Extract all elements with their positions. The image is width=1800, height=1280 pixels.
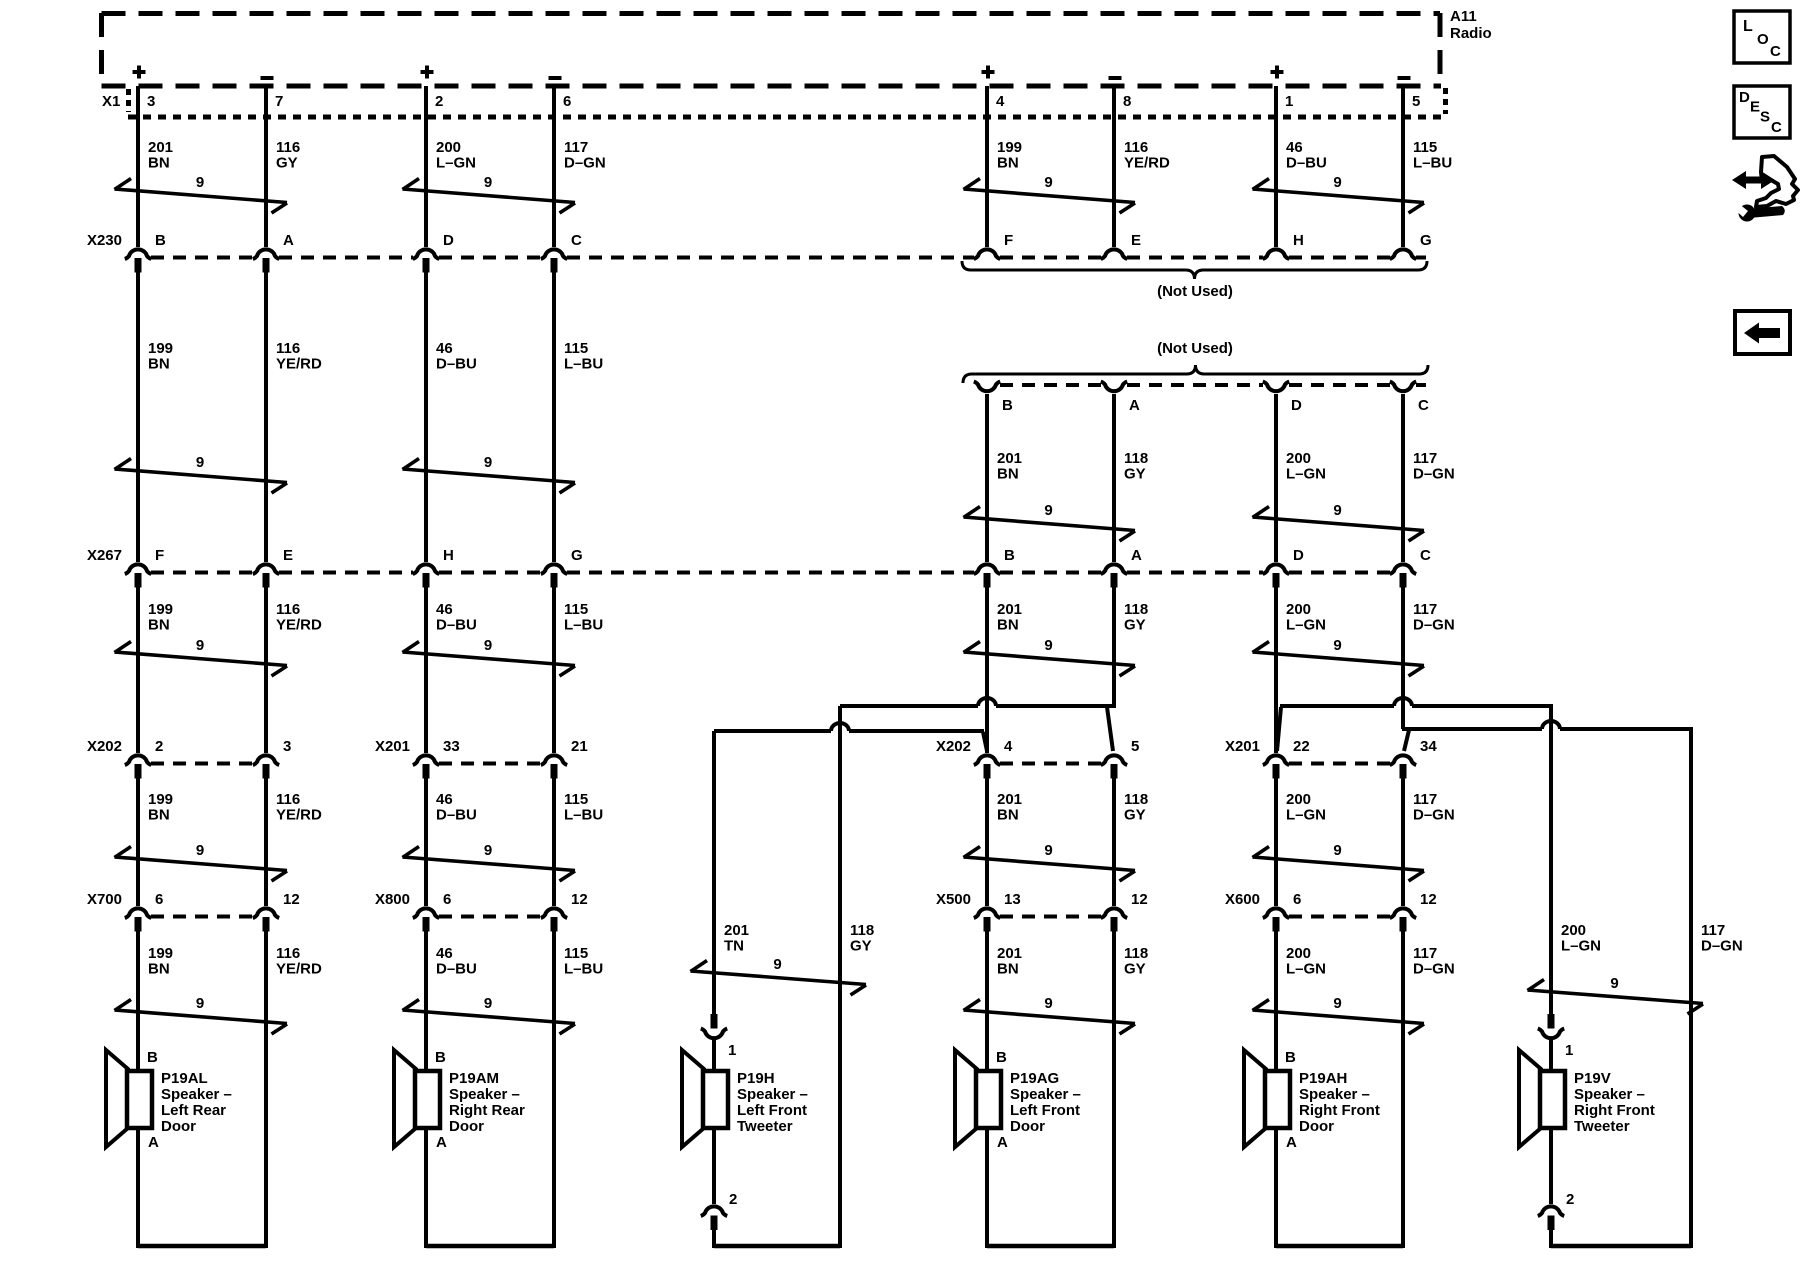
svg-text:6: 6 <box>563 93 571 110</box>
svg-text:46: 46 <box>436 601 453 618</box>
svg-text:115: 115 <box>564 945 588 962</box>
svg-text:BN: BN <box>148 617 170 634</box>
svg-text:Right Front: Right Front <box>1299 1102 1380 1119</box>
svg-text:3: 3 <box>147 93 155 110</box>
svg-text:B: B <box>1002 397 1013 414</box>
svg-text:P19H: P19H <box>737 1070 775 1087</box>
svg-text:13: 13 <box>1004 891 1021 908</box>
svg-text:X230: X230 <box>87 232 122 249</box>
svg-text:D–GN: D–GN <box>1701 938 1743 955</box>
svg-text:GY: GY <box>276 155 298 172</box>
svg-text:G: G <box>1420 232 1432 249</box>
svg-text:117: 117 <box>564 139 588 156</box>
svg-text:GY: GY <box>1124 466 1146 483</box>
svg-text:2: 2 <box>729 1191 737 1208</box>
svg-text:H: H <box>443 547 454 564</box>
svg-text:Speaker –: Speaker – <box>1574 1086 1645 1103</box>
svg-text:3: 3 <box>283 738 291 755</box>
svg-text:BN: BN <box>148 807 170 824</box>
svg-text:L–GN: L–GN <box>436 155 476 172</box>
svg-text:12: 12 <box>571 891 588 908</box>
svg-text:Left Front: Left Front <box>737 1102 807 1119</box>
svg-text:7: 7 <box>275 93 283 110</box>
svg-text:GY: GY <box>850 938 872 955</box>
svg-text:BN: BN <box>997 807 1019 824</box>
svg-text:116: 116 <box>276 945 300 962</box>
svg-text:199: 199 <box>148 791 173 808</box>
svg-text:9: 9 <box>484 454 492 471</box>
svg-text:(Not Used): (Not Used) <box>1157 340 1233 357</box>
svg-text:L–BU: L–BU <box>564 961 603 978</box>
svg-text:BN: BN <box>997 466 1019 483</box>
svg-text:BN: BN <box>997 155 1019 172</box>
svg-text:200: 200 <box>1561 922 1586 939</box>
svg-text:201: 201 <box>148 139 173 156</box>
svg-text:201: 201 <box>997 945 1022 962</box>
svg-text:115: 115 <box>564 601 588 618</box>
svg-text:S: S <box>1760 109 1770 126</box>
svg-text:P19AL: P19AL <box>161 1070 208 1087</box>
svg-text:118: 118 <box>850 922 874 939</box>
svg-text:E: E <box>283 547 293 564</box>
svg-text:115: 115 <box>564 340 588 357</box>
svg-text:Tweeter: Tweeter <box>737 1118 793 1135</box>
svg-text:46: 46 <box>436 791 453 808</box>
svg-text:118: 118 <box>1124 791 1148 808</box>
svg-text:P19AH: P19AH <box>1299 1070 1347 1087</box>
svg-text:46: 46 <box>436 340 453 357</box>
svg-text:BN: BN <box>148 356 170 373</box>
svg-text:9: 9 <box>1044 842 1052 859</box>
svg-text:33: 33 <box>443 738 460 755</box>
svg-text:116: 116 <box>276 139 300 156</box>
svg-text:D–GN: D–GN <box>1413 807 1455 824</box>
svg-text:46: 46 <box>436 945 453 962</box>
svg-text:5: 5 <box>1412 93 1420 110</box>
svg-text:117: 117 <box>1413 450 1437 467</box>
svg-text:D–BU: D–BU <box>436 617 477 634</box>
svg-text:115: 115 <box>1413 139 1437 156</box>
svg-text:F: F <box>155 547 164 564</box>
svg-text:Left Front: Left Front <box>1010 1102 1080 1119</box>
svg-text:D: D <box>1293 547 1304 564</box>
svg-text:12: 12 <box>1131 891 1148 908</box>
svg-text:C: C <box>1420 547 1431 564</box>
svg-text:Speaker –: Speaker – <box>1299 1086 1370 1103</box>
svg-text:B: B <box>996 1049 1007 1066</box>
svg-text:O: O <box>1757 31 1769 48</box>
svg-text:9: 9 <box>1044 637 1052 654</box>
svg-text:L–GN: L–GN <box>1286 617 1326 634</box>
svg-text:X202: X202 <box>87 738 122 755</box>
svg-text:B: B <box>435 1049 446 1066</box>
svg-text:116: 116 <box>276 791 300 808</box>
svg-text:D–GN: D–GN <box>1413 466 1455 483</box>
svg-text:9: 9 <box>1044 502 1052 519</box>
svg-text:201: 201 <box>724 922 749 939</box>
svg-text:GY: GY <box>1124 961 1146 978</box>
svg-text:D–GN: D–GN <box>1413 617 1455 634</box>
svg-text:9: 9 <box>1044 995 1052 1012</box>
svg-text:6: 6 <box>155 891 163 908</box>
svg-text:199: 199 <box>997 139 1022 156</box>
svg-text:115: 115 <box>564 791 588 808</box>
svg-text:116: 116 <box>1124 139 1148 156</box>
svg-text:Door: Door <box>161 1118 196 1135</box>
svg-text:GY: GY <box>1124 807 1146 824</box>
svg-text:9: 9 <box>196 842 204 859</box>
svg-text:9: 9 <box>196 174 204 191</box>
svg-text:4: 4 <box>1004 738 1013 755</box>
svg-text:A: A <box>283 232 294 249</box>
svg-text:12: 12 <box>1420 891 1437 908</box>
svg-text:X800: X800 <box>375 891 410 908</box>
svg-text:E: E <box>1131 232 1141 249</box>
svg-text:A: A <box>1131 547 1142 564</box>
svg-text:C: C <box>571 232 582 249</box>
svg-text:P19AM: P19AM <box>449 1070 499 1087</box>
svg-text:D: D <box>1739 89 1750 106</box>
svg-text:D–GN: D–GN <box>1413 961 1455 978</box>
svg-text:B: B <box>155 232 166 249</box>
svg-text:118: 118 <box>1124 601 1148 618</box>
svg-text:YE/RD: YE/RD <box>276 617 322 634</box>
svg-text:YE/RD: YE/RD <box>276 807 322 824</box>
svg-text:X202: X202 <box>936 738 971 755</box>
svg-text:9: 9 <box>196 454 204 471</box>
svg-text:X201: X201 <box>1225 738 1260 755</box>
svg-text:117: 117 <box>1701 922 1725 939</box>
svg-text:X267: X267 <box>87 547 122 564</box>
svg-text:116: 116 <box>276 340 300 357</box>
svg-text:117: 117 <box>1413 791 1437 808</box>
svg-text:A: A <box>148 1134 159 1151</box>
svg-text:X201: X201 <box>375 738 410 755</box>
svg-text:X700: X700 <box>87 891 122 908</box>
svg-text:BN: BN <box>148 155 170 172</box>
svg-text:6: 6 <box>1293 891 1301 908</box>
svg-text:Door: Door <box>1010 1118 1045 1135</box>
svg-text:9: 9 <box>773 956 781 973</box>
svg-text:L–GN: L–GN <box>1561 938 1601 955</box>
svg-text:9: 9 <box>196 995 204 1012</box>
svg-text:B: B <box>1004 547 1015 564</box>
svg-text:1: 1 <box>728 1042 736 1059</box>
svg-text:9: 9 <box>1333 174 1341 191</box>
svg-text:H: H <box>1293 232 1304 249</box>
svg-text:BN: BN <box>997 617 1019 634</box>
svg-text:9: 9 <box>196 637 204 654</box>
svg-text:199: 199 <box>148 945 173 962</box>
svg-text:C: C <box>1418 397 1429 414</box>
svg-text:X500: X500 <box>936 891 971 908</box>
svg-text:1: 1 <box>1285 93 1293 110</box>
svg-text:D–BU: D–BU <box>436 356 477 373</box>
svg-text:P19AG: P19AG <box>1010 1070 1059 1087</box>
svg-text:GY: GY <box>1124 617 1146 634</box>
svg-text:L: L <box>1743 18 1753 35</box>
svg-text:8: 8 <box>1123 93 1131 110</box>
svg-text:A11: A11 <box>1450 8 1477 25</box>
svg-text:Speaker –: Speaker – <box>1010 1086 1081 1103</box>
svg-text:A: A <box>436 1134 447 1151</box>
svg-text:A: A <box>997 1134 1008 1151</box>
svg-text:L–GN: L–GN <box>1286 807 1326 824</box>
svg-text:46: 46 <box>1286 139 1303 156</box>
svg-text:L–BU: L–BU <box>1413 155 1452 172</box>
svg-text:9: 9 <box>484 174 492 191</box>
svg-text:116: 116 <box>276 601 300 618</box>
svg-text:118: 118 <box>1124 945 1148 962</box>
svg-text:Radio: Radio <box>1450 25 1492 42</box>
svg-text:22: 22 <box>1293 738 1310 755</box>
svg-text:B: B <box>1285 1049 1296 1066</box>
svg-text:201: 201 <box>997 601 1022 618</box>
svg-text:D–BU: D–BU <box>1286 155 1327 172</box>
svg-text:199: 199 <box>148 340 173 357</box>
svg-text:Speaker –: Speaker – <box>161 1086 232 1103</box>
svg-text:D: D <box>443 232 454 249</box>
svg-text:Door: Door <box>449 1118 484 1135</box>
svg-text:117: 117 <box>1413 945 1437 962</box>
svg-text:200: 200 <box>436 139 461 156</box>
svg-text:X600: X600 <box>1225 891 1260 908</box>
svg-text:D–BU: D–BU <box>436 807 477 824</box>
svg-text:5: 5 <box>1131 738 1139 755</box>
svg-text:21: 21 <box>571 738 588 755</box>
svg-text:L–BU: L–BU <box>564 807 603 824</box>
svg-text:P19V: P19V <box>1574 1070 1611 1087</box>
svg-text:YE/RD: YE/RD <box>276 356 322 373</box>
svg-text:D: D <box>1291 397 1302 414</box>
svg-text:9: 9 <box>1333 995 1341 1012</box>
svg-text:Door: Door <box>1299 1118 1334 1135</box>
svg-text:F: F <box>1004 232 1013 249</box>
svg-text:Speaker –: Speaker – <box>737 1086 808 1103</box>
svg-text:201: 201 <box>997 791 1022 808</box>
svg-text:Right Rear: Right Rear <box>449 1102 525 1119</box>
svg-text:L–BU: L–BU <box>564 617 603 634</box>
svg-text:B: B <box>147 1049 158 1066</box>
svg-text:200: 200 <box>1286 601 1311 618</box>
svg-text:200: 200 <box>1286 791 1311 808</box>
svg-text:2: 2 <box>155 738 163 755</box>
svg-text:BN: BN <box>997 961 1019 978</box>
svg-text:200: 200 <box>1286 450 1311 467</box>
svg-text:118: 118 <box>1124 450 1148 467</box>
svg-text:(Not Used): (Not Used) <box>1157 283 1233 300</box>
svg-text:C: C <box>1771 119 1782 136</box>
svg-text:Tweeter: Tweeter <box>1574 1118 1630 1135</box>
svg-text:2: 2 <box>1566 1191 1574 1208</box>
svg-text:E: E <box>1750 99 1760 116</box>
svg-text:D–GN: D–GN <box>564 155 606 172</box>
svg-text:Speaker –: Speaker – <box>449 1086 520 1103</box>
svg-text:200: 200 <box>1286 945 1311 962</box>
svg-text:BN: BN <box>148 961 170 978</box>
svg-text:9: 9 <box>1610 975 1618 992</box>
svg-text:YE/RD: YE/RD <box>276 961 322 978</box>
svg-text:9: 9 <box>484 995 492 1012</box>
svg-text:9: 9 <box>1333 842 1341 859</box>
svg-text:9: 9 <box>1044 174 1052 191</box>
svg-text:9: 9 <box>1333 637 1341 654</box>
svg-text:Left Rear: Left Rear <box>161 1102 226 1119</box>
svg-text:9: 9 <box>484 842 492 859</box>
svg-text:2: 2 <box>435 93 443 110</box>
svg-text:G: G <box>571 547 583 564</box>
svg-text:34: 34 <box>1420 738 1437 755</box>
svg-text:YE/RD: YE/RD <box>1124 155 1170 172</box>
svg-text:Right Front: Right Front <box>1574 1102 1655 1119</box>
svg-text:TN: TN <box>724 938 744 955</box>
svg-text:117: 117 <box>1413 601 1437 618</box>
svg-text:201: 201 <box>997 450 1022 467</box>
svg-text:A: A <box>1286 1134 1297 1151</box>
svg-text:6: 6 <box>443 891 451 908</box>
svg-text:D–BU: D–BU <box>436 961 477 978</box>
svg-text:4: 4 <box>996 93 1005 110</box>
svg-text:199: 199 <box>148 601 173 618</box>
svg-text:9: 9 <box>1333 502 1341 519</box>
svg-text:A: A <box>1129 397 1140 414</box>
svg-text:L–GN: L–GN <box>1286 961 1326 978</box>
svg-text:9: 9 <box>484 637 492 654</box>
svg-text:12: 12 <box>283 891 300 908</box>
svg-text:X1: X1 <box>102 93 120 110</box>
svg-text:L–BU: L–BU <box>564 356 603 373</box>
svg-text:1: 1 <box>1565 1042 1573 1059</box>
svg-text:C: C <box>1770 43 1781 60</box>
svg-text:L–GN: L–GN <box>1286 466 1326 483</box>
